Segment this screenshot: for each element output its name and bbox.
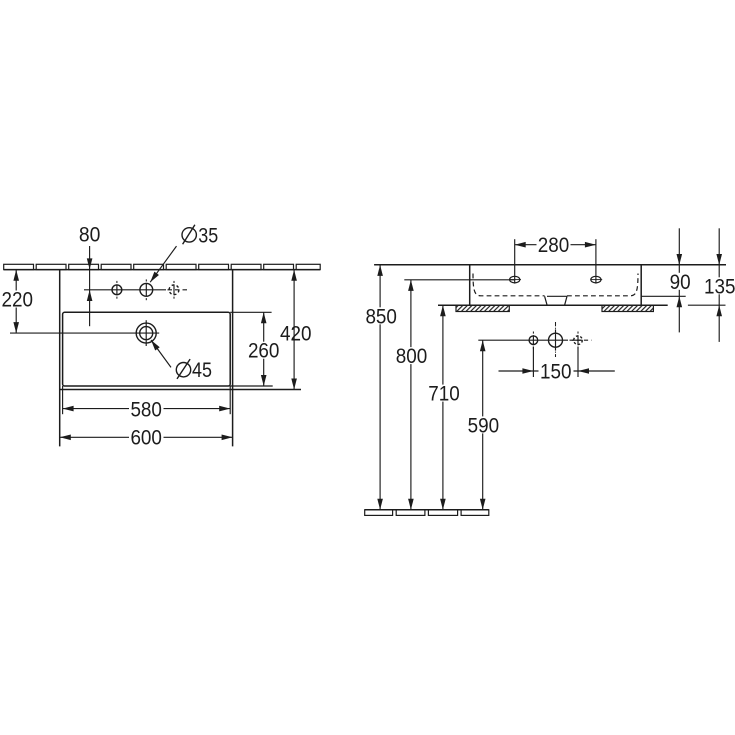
svg-text:260: 260 — [248, 340, 280, 363]
svg-text:420: 420 — [280, 322, 312, 345]
svg-text:800: 800 — [396, 345, 428, 368]
svg-text:35: 35 — [198, 224, 218, 247]
svg-text:850: 850 — [365, 305, 397, 328]
svg-text:710: 710 — [428, 383, 460, 406]
svg-text:80: 80 — [79, 224, 101, 247]
svg-text:590: 590 — [468, 414, 500, 437]
svg-text:150: 150 — [540, 361, 572, 384]
svg-text:45: 45 — [192, 359, 212, 382]
svg-text:600: 600 — [130, 426, 162, 449]
svg-text:280: 280 — [538, 234, 570, 257]
svg-text:90: 90 — [670, 271, 691, 294]
svg-text:220: 220 — [2, 289, 34, 312]
svg-text:135: 135 — [704, 275, 735, 298]
svg-text:580: 580 — [130, 398, 162, 421]
